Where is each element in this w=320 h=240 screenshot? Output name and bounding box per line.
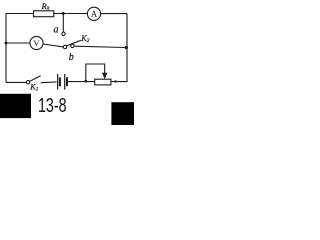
svg-text:V: V — [33, 38, 40, 48]
svg-text:A: A — [91, 9, 98, 19]
svg-text:a: a — [54, 24, 59, 35]
svg-text:b: b — [69, 52, 74, 63]
svg-text:13-8: 13-8 — [38, 94, 67, 117]
